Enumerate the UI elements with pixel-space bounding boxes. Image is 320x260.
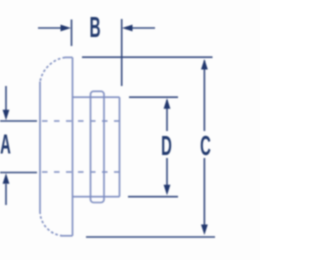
arrowhead B left [61, 25, 72, 32]
extension line C bottom [86, 236, 215, 238]
svg-text:B: B [89, 11, 100, 43]
dimension B left line [38, 27, 62, 29]
dimension D line lower [166, 158, 168, 193]
svg-text:C: C [200, 130, 211, 161]
wire dome left edge [39, 82, 41, 212]
arrowhead C top [201, 59, 208, 70]
rib ring outline [91, 91, 105, 202]
hidden hole line lower [42, 171, 120, 173]
extension line A top [0, 120, 37, 122]
dimension A upper line [5, 86, 7, 111]
extension line D bottom [128, 196, 178, 198]
extension line B right [121, 19, 123, 86]
wire dome top-left arc [40, 57, 65, 82]
dimension D line upper [166, 100, 168, 131]
wire body right edge [119, 97, 121, 197]
arrowhead A down [3, 110, 10, 121]
dimension C line upper [203, 61, 205, 132]
dimension A lower line [5, 184, 7, 205]
wire dome bottom-left arc [40, 212, 62, 236]
hidden hole line upper [42, 120, 120, 122]
svg-text:A: A [0, 129, 11, 160]
extension line A bottom [0, 172, 37, 174]
wire dome head outline [40, 57, 120, 235]
wire dome top edge [65, 56, 73, 58]
wire body bottom edge [73, 196, 120, 198]
wire dome right face [72, 57, 74, 235]
extension line C top [82, 56, 213, 58]
arrowhead A up [3, 173, 10, 184]
dimension C line lower [203, 158, 205, 231]
arrowhead B right [122, 25, 133, 32]
arrowhead D bottom [164, 185, 171, 196]
wire body top edge [73, 96, 120, 98]
svg-text:D: D [161, 130, 172, 161]
wire dome bottom edge [61, 235, 73, 237]
arrowhead D top [164, 98, 171, 109]
arrowhead C bottom [201, 225, 208, 236]
extension line D top [129, 96, 178, 98]
dimension B right line [131, 27, 155, 29]
extension line B left [71, 20, 73, 47]
